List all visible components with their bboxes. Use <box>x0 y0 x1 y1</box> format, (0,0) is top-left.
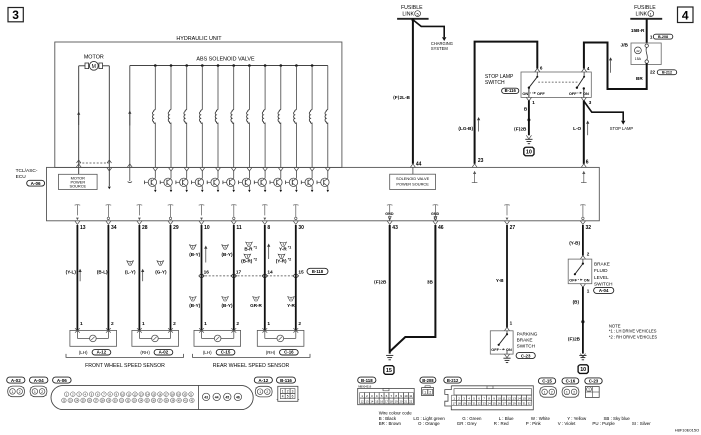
wire rear sensor circuit 5 <box>201 225 203 330</box>
ECU internal arrow below pin 6 <box>581 164 587 183</box>
ground pin + earth (stop lamp B wire) <box>525 135 532 143</box>
svg-text:A-02: A-02 <box>11 378 21 383</box>
svg-text:6: 6 <box>292 395 294 399</box>
current arrow wire ckt5 <box>204 246 207 263</box>
svg-text:15B-R: 15B-R <box>631 28 645 33</box>
label TCL/ASC-ECU <box>16 168 38 180</box>
connector label C-15 (bottom) <box>538 378 555 384</box>
svg-text:A-04: A-04 <box>599 288 609 293</box>
connector drawing B-208 <box>422 386 434 396</box>
label Y-R lower <box>287 303 295 308</box>
connector label A-12 (bottom) <box>254 377 272 383</box>
svg-text:FLUID: FLUID <box>594 268 608 273</box>
wire <F>2B (pin 43 to ground 15) <box>389 225 391 354</box>
svg-text:*1: *1 <box>288 246 292 250</box>
inline connector diamond at pin 14 <box>262 273 268 278</box>
svg-text:2: 2 <box>236 321 239 327</box>
label MOTOR <box>84 55 104 61</box>
fan symbol wire L-Y <box>127 261 134 265</box>
connector label A-04 (switch) <box>594 287 614 293</box>
wire 2L-B (fusible link 5 to pin 44) <box>411 18 414 164</box>
current arrow wire ckt7 <box>267 244 270 260</box>
connector drawing A-04 <box>30 386 47 397</box>
svg-text:23: 23 <box>483 401 486 405</box>
svg-text:B-208: B-208 <box>422 378 434 383</box>
svg-text:14: 14 <box>370 399 373 403</box>
ECU internal line above pin 34 <box>106 205 112 220</box>
connector drawing B-212 <box>445 386 534 410</box>
svg-text:(B-Y): (B-Y) <box>189 303 200 308</box>
svg-text:24: 24 <box>488 401 491 405</box>
wire Y-B (pin 27 to parking brake switch) <box>506 225 508 328</box>
svg-text:Y-R: Y-R <box>287 303 295 308</box>
wire colour code line 2 <box>379 421 652 426</box>
svg-text:1: 1 <box>587 288 590 293</box>
sensor label (LH) <box>79 350 88 355</box>
svg-text:10: 10 <box>497 396 501 400</box>
svg-text:6: 6 <box>586 159 589 165</box>
connector drawing C-23 <box>585 387 599 398</box>
svg-text:REAR WHEEL SPEED SENSOR: REAR WHEEL SPEED SENSOR <box>213 363 290 369</box>
pin 4 of stop lamp switch <box>582 66 590 72</box>
wire (Y-L) (sensor circuit 1) <box>76 225 78 330</box>
fan symbol wire G-Y <box>157 261 164 265</box>
GND mark above pin 43 <box>385 212 394 220</box>
motor connector dashed interface <box>77 160 112 163</box>
label (B-R) *2 <box>241 258 257 264</box>
svg-text:GR-R: GR-R <box>250 303 262 308</box>
solenoid valve coil L11 and wire <box>309 64 313 167</box>
svg-text:(L-Y): (L-Y) <box>125 269 136 274</box>
label B-R *1 <box>244 246 257 252</box>
svg-text:22: 22 <box>409 399 412 403</box>
svg-text:1: 1 <box>510 321 513 326</box>
current arrow on LG-B wire <box>477 117 480 132</box>
pin 14 of B-118 <box>267 269 273 275</box>
svg-text:1: 1 <box>650 35 653 40</box>
fan symbol wire B-Y upper (ckt6) <box>222 245 229 249</box>
svg-text:11: 11 <box>409 394 412 398</box>
svg-text:32: 32 <box>586 225 592 231</box>
svg-text:1: 1 <box>588 388 590 392</box>
label CHARGING SYSTEM <box>431 41 453 51</box>
svg-text:(Y-B): (Y-B) <box>569 241 580 246</box>
wire label 3B <box>427 279 434 284</box>
svg-text:SWITCH: SWITCH <box>485 80 505 86</box>
pin 28 (ECU bottom) <box>137 221 148 231</box>
ECU internal line above pin 28 <box>137 205 143 221</box>
svg-text:30: 30 <box>518 401 521 405</box>
svg-text:LEVEL: LEVEL <box>594 275 609 280</box>
svg-text:2: 2 <box>551 390 553 394</box>
label FRONT WHEEL SPEED SENSOR <box>85 363 165 369</box>
current arrow on motor left wire <box>77 112 80 126</box>
svg-text:B-R: B-R <box>244 246 253 251</box>
pin 43 (ECU bottom) <box>387 221 398 231</box>
svg-text:3: 3 <box>589 100 592 105</box>
wire colour code header <box>379 411 413 416</box>
svg-text:BRAKE: BRAKE <box>594 261 610 266</box>
svg-text:B-212: B-212 <box>447 378 459 383</box>
svg-text:23: 23 <box>478 158 484 164</box>
connector label A-06 (bottom) <box>53 377 72 383</box>
svg-text:22: 22 <box>650 70 656 75</box>
solenoid supply pin into ECU <box>127 164 132 183</box>
pin 2 of brake fluid level switch <box>580 252 589 259</box>
label (B-L) <box>97 269 108 274</box>
label GR-R <box>250 303 262 308</box>
svg-text:22: 22 <box>478 401 481 405</box>
svg-text:B-208: B-208 <box>658 35 668 39</box>
svg-text:30: 30 <box>298 225 304 231</box>
sensor pin 2 at x170.5 <box>173 321 176 327</box>
pin 30 (ECU bottom) <box>293 221 304 231</box>
svg-text:A-04: A-04 <box>34 378 44 383</box>
connector label A-02 (sensor) <box>154 350 173 355</box>
wire LG-B (pin 23 to stop lamp switch pin 6) <box>475 42 538 164</box>
svg-text:A-02: A-02 <box>159 350 169 355</box>
svg-text:19: 19 <box>395 399 398 403</box>
solenoid valve coil L7 and wire <box>247 64 251 167</box>
svg-text:(RH): (RH) <box>266 350 276 355</box>
svg-text:POWER SOURCE: POWER SOURCE <box>396 181 429 186</box>
svg-text:⟨F⟩2B: ⟨F⟩2B <box>374 279 387 284</box>
svg-text:OFF: OFF <box>491 348 499 352</box>
solenoid valve coil L10 and wire <box>294 64 298 167</box>
ECU internal line above pin 13 <box>75 205 81 221</box>
connector label C-23 (switch) <box>516 353 535 359</box>
sensor label (RH) <box>266 350 276 355</box>
svg-text:*2 : RH DRIVE VEHICLES: *2 : RH DRIVE VEHICLES <box>609 334 657 339</box>
left ON OFF labels <box>522 91 545 96</box>
connector label B-118 (inline) <box>307 268 328 274</box>
pin 1 of brake fluid level switch <box>580 284 589 294</box>
motor M1 symbol <box>79 61 110 70</box>
svg-text:B-116: B-116 <box>505 88 517 93</box>
connector label A-04 (bottom) <box>30 377 48 383</box>
pin 3 of stop lamp switch <box>581 87 592 105</box>
svg-text:1: 1 <box>267 321 270 327</box>
svg-text:1: 1 <box>282 390 284 394</box>
svg-text:3B: 3B <box>427 279 434 284</box>
svg-text:15: 15 <box>386 368 392 374</box>
svg-text:SWITCH: SWITCH <box>517 344 536 349</box>
svg-text:3: 3 <box>292 390 294 394</box>
solenoid valve coil L4 and wire <box>199 64 203 167</box>
svg-text:10: 10 <box>526 150 532 156</box>
earth ground (brake fluid) <box>579 354 586 360</box>
svg-text:16: 16 <box>204 269 210 275</box>
wire label B <box>524 107 528 112</box>
pin 1 of parking brake switch <box>504 321 512 331</box>
svg-text:(B-Y): (B-Y) <box>222 252 233 257</box>
svg-text:ABS SOLENOID VALVE: ABS SOLENOID VALVE <box>196 56 255 62</box>
svg-text:OFF: OFF <box>569 279 577 283</box>
pin 15 of B-118 <box>298 269 304 275</box>
svg-text:29: 29 <box>173 225 179 231</box>
pin 6 (ECU top) <box>586 159 589 165</box>
svg-text:1: 1 <box>142 321 145 327</box>
svg-text:(B): (B) <box>573 300 580 305</box>
sensor pin 1 at x264.8 <box>267 321 270 327</box>
wire (L-Y) (sensor circuit 3) <box>138 225 140 330</box>
wire label (Y-B) <box>569 241 580 246</box>
svg-text:BR: BR <box>636 76 643 81</box>
pin 11 (ECU bottom) <box>231 221 242 231</box>
connector label C-16 (bottom) <box>562 378 579 384</box>
svg-text:15: 15 <box>298 269 304 275</box>
pin 17 of B-118 <box>236 269 242 275</box>
svg-text:17: 17 <box>453 401 456 405</box>
wire label (LG-B) <box>458 126 473 131</box>
svg-text:(LG-B): (LG-B) <box>458 126 473 131</box>
svg-text:44: 44 <box>416 161 422 167</box>
splice dot brake fluid wire <box>581 320 584 323</box>
transistor Q12 (solenoid driver) <box>317 167 330 192</box>
fusible link 1 label <box>634 5 656 17</box>
transistor Q11 (solenoid driver) <box>301 167 314 192</box>
svg-text:43: 43 <box>392 225 398 231</box>
svg-text:2: 2 <box>287 390 289 394</box>
svg-text:3: 3 <box>12 8 19 22</box>
transistor Q2 (solenoid driver) <box>160 167 173 192</box>
ECU internal line above pin 43 <box>387 205 393 221</box>
fan symbol wire B-Y upper (ckt5) <box>190 245 197 249</box>
ground point 15 box <box>384 366 394 375</box>
wire BR (J/B to stop lamp switch pin 4) <box>584 43 647 90</box>
connector label B-208 (bottom) <box>420 377 436 383</box>
current arrow on L-O wire <box>586 121 589 136</box>
ECU internal line above pin 10 <box>199 205 205 221</box>
wire pin44 stub to SVPS box <box>410 164 415 174</box>
connector label B-212 (bottom) <box>444 377 462 383</box>
svg-text:16: 16 <box>380 399 383 403</box>
wire motor right into ECU <box>107 163 112 189</box>
svg-text:1: 1 <box>12 390 14 394</box>
svg-text:16: 16 <box>527 396 531 400</box>
svg-text:1: 1 <box>424 390 426 394</box>
connector label B-208 (top) <box>653 34 673 39</box>
svg-text:6: 6 <box>540 65 543 70</box>
switch mechanical link dashed <box>538 81 577 83</box>
svg-text:2: 2 <box>587 252 590 257</box>
motor power source box <box>59 174 98 189</box>
svg-text:FUSIBLE: FUSIBLE <box>634 5 656 11</box>
svg-text:1: 1 <box>34 390 36 394</box>
wire 15B-R (fusible link 1 to J/B) <box>646 19 648 43</box>
svg-text:8: 8 <box>267 225 270 231</box>
svg-text:2: 2 <box>19 390 21 394</box>
svg-text:A-06: A-06 <box>31 181 41 186</box>
svg-text:L-O: L-O <box>573 126 581 131</box>
pin 10 (ECU bottom) <box>199 221 210 231</box>
svg-text:(B-Y): (B-Y) <box>222 303 233 308</box>
svg-text:14: 14 <box>267 269 273 275</box>
wire (G-Y) (sensor circuit 4) <box>170 225 172 330</box>
svg-text:(B-R): (B-R) <box>241 258 253 263</box>
wire (Y-B) pin 32 to brake fluid switch <box>582 225 584 256</box>
svg-text:15: 15 <box>375 399 378 403</box>
ground point 10 box (stop lamp) <box>524 147 534 156</box>
fusible link 5 label <box>401 5 423 17</box>
svg-text:2: 2 <box>573 390 575 394</box>
svg-text:11: 11 <box>503 396 506 400</box>
label PARKING BRAKE SWITCH <box>517 331 538 348</box>
svg-text:1: 1 <box>80 321 83 327</box>
svg-text:Y-B: Y-B <box>496 278 504 283</box>
wire motor right <box>108 66 110 163</box>
connector drawing B-118 <box>358 385 415 405</box>
wheel speed sensor (RH) A-02 <box>132 328 179 346</box>
svg-text:*1: *1 <box>254 246 258 250</box>
svg-text:25: 25 <box>493 401 496 405</box>
svg-text:J/B: J/B <box>621 43 629 49</box>
current arrow on solenoid supply <box>128 111 131 126</box>
ECU internal line above pin 30 <box>293 205 299 220</box>
wire label <F>2B (brake fluid) <box>568 337 581 342</box>
svg-text:19: 19 <box>463 401 466 405</box>
svg-text:(LH): (LH) <box>203 350 212 355</box>
connector drawing A-02 <box>8 386 25 397</box>
svg-text:(B-L): (B-L) <box>97 269 108 274</box>
ECU internal line above pin 46 <box>433 205 439 220</box>
svg-text:C-15: C-15 <box>221 350 231 355</box>
solenoid valve coil L1 and wire <box>152 64 156 167</box>
wire motor left <box>78 66 80 163</box>
solenoid valve coil L5 and wire <box>215 64 219 167</box>
TCL/ASC-ECU box <box>47 167 600 220</box>
current arrow on BR wire <box>609 57 612 73</box>
fan symbol wire Y-R (ckt8 row1) <box>280 242 287 246</box>
svg-text:13: 13 <box>80 225 86 231</box>
svg-text:(G-Y): (G-Y) <box>155 269 167 274</box>
transistor Q9 (solenoid driver) <box>270 167 283 192</box>
front sensor bracket <box>66 354 184 358</box>
sensor pin 1 at x201.5 <box>204 321 207 327</box>
svg-text:MOTOR: MOTOR <box>84 55 104 61</box>
earth ground (pin43/46) <box>386 355 393 359</box>
svg-text:PARKING: PARKING <box>517 331 538 336</box>
solenoid valve coil L6 and wire <box>231 64 235 167</box>
stop lamp switch left contact <box>528 72 539 89</box>
pin 6 of stop lamp switch <box>535 65 543 72</box>
svg-text:SWITCH: SWITCH <box>594 281 613 286</box>
sensor label (LH) <box>203 350 212 355</box>
label (B-Y) upper (ckt5) <box>189 252 200 257</box>
pin 22 of B-212 <box>650 70 656 75</box>
brake fluid level switch box <box>568 259 592 284</box>
wire label <F>2L-B <box>393 95 411 100</box>
svg-text:1: 1 <box>204 321 207 327</box>
transistor Q4 (solenoid driver) <box>192 167 205 192</box>
label (B-Y) upper (ckt6) <box>222 252 233 257</box>
svg-text:10: 10 <box>580 367 586 373</box>
pin 34 (ECU bottom) <box>106 221 117 231</box>
svg-text:27: 27 <box>510 225 516 231</box>
pin 46 (ECU bottom) <box>433 221 444 231</box>
label (B-Y) lower (ckt6) <box>222 303 233 308</box>
label Y-R *1 <box>279 246 291 252</box>
wheel speed sensor (LH) C-15 <box>194 328 241 346</box>
stop lamp switch box <box>521 72 591 97</box>
svg-text:2: 2 <box>429 390 431 394</box>
svg-text:31: 31 <box>523 401 526 405</box>
wire label L-O <box>573 126 581 131</box>
svg-text:18: 18 <box>458 401 461 405</box>
inline connector dashed line B-118 <box>202 275 296 277</box>
svg-text:FUSIBLE: FUSIBLE <box>401 5 423 11</box>
connector label B-212 (top) <box>657 70 676 75</box>
svg-text:18: 18 <box>390 399 393 403</box>
diagram code <box>675 427 699 432</box>
svg-text:H8F10E015O: H8F10E015O <box>675 427 699 432</box>
svg-text:34: 34 <box>111 225 117 231</box>
solenoid valve coil L8 and wire <box>262 64 266 167</box>
svg-text:2: 2 <box>173 321 176 327</box>
NOTE block <box>609 323 657 339</box>
pin 23 <box>478 158 484 164</box>
connector drawing A-12 <box>255 386 272 397</box>
svg-text:ON: ON <box>522 91 528 96</box>
svg-text:1: 1 <box>532 100 535 105</box>
sensor pin 2 at x295.8 <box>298 321 301 327</box>
svg-text:(B-Y): (B-Y) <box>189 252 200 257</box>
svg-text:C-23: C-23 <box>589 379 599 384</box>
svg-text:Y-R: Y-R <box>279 246 287 251</box>
svg-text:2: 2 <box>41 390 43 394</box>
svg-text:⟨F⟩2B: ⟨F⟩2B <box>514 127 527 132</box>
svg-text:32: 32 <box>528 401 531 405</box>
svg-text:28: 28 <box>508 401 511 405</box>
ground point 10 box (lower) <box>578 365 588 374</box>
connector drawing C-16 <box>562 387 579 398</box>
wire B (stop lamp switch pin1 to ground 10) <box>528 101 530 136</box>
svg-text:21: 21 <box>404 399 407 403</box>
brake fluid OFF ON labels <box>569 279 589 283</box>
svg-text:15: 15 <box>522 396 526 400</box>
svg-text:44: 44 <box>215 395 219 399</box>
svg-text:HYDRAULIC UNIT: HYDRAULIC UNIT <box>176 36 222 42</box>
rear sensor bracket <box>193 354 311 358</box>
wire branch to charging system <box>413 20 447 41</box>
pin 1 of B-208 <box>650 35 653 40</box>
parking brake switch box <box>490 331 513 354</box>
svg-text:LINK: LINK <box>402 12 414 18</box>
svg-text:12: 12 <box>361 399 364 403</box>
transistor Q10 (solenoid driver) <box>286 167 299 192</box>
svg-text:ECU: ECU <box>16 174 27 180</box>
connector label B-116 (bottom) <box>277 377 296 383</box>
svg-text:46: 46 <box>236 395 240 399</box>
svg-text:*2: *2 <box>288 258 292 262</box>
fan symbol wire Y-R lower (ckt8) <box>288 297 295 301</box>
pin 1 of stop lamp switch <box>526 88 535 105</box>
ECU internal arrow below pin 23 <box>472 164 478 183</box>
svg-text:28: 28 <box>142 225 148 231</box>
wire solenoid supply left drop <box>129 66 131 168</box>
pin 16 of B-118 <box>204 269 210 275</box>
svg-text:17: 17 <box>236 269 242 275</box>
fan symbol wire GR-R lower (ckt7) <box>253 297 260 301</box>
ECU internal line above pin 27 <box>504 205 510 221</box>
svg-text:OFF: OFF <box>569 91 577 96</box>
pin 32 (ECU bottom) <box>580 221 591 231</box>
transistor Q7 (solenoid driver) <box>239 167 252 192</box>
svg-text:B-212: B-212 <box>662 70 672 74</box>
svg-text:42: 42 <box>636 49 640 53</box>
svg-text:14: 14 <box>517 396 521 400</box>
pin 27 (ECU bottom) <box>504 221 515 231</box>
